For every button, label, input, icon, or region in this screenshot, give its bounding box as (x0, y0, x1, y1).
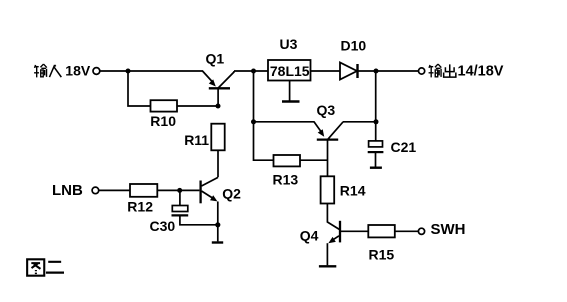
resistor R13 (274, 155, 301, 166)
svg-text:Q3: Q3 (317, 102, 336, 118)
ground U3 (289, 81, 291, 101)
node LNB terminal (92, 187, 99, 194)
node SWH terminal (418, 228, 424, 234)
wire R10 to base node (177, 105, 218, 107)
junction output node (374, 69, 379, 74)
wire output node down to C21 (375, 71, 377, 141)
wire R15 to SWH (395, 230, 418, 232)
wire Q1 collector to U3 (234, 70, 268, 72)
svg-text:78L15: 78L15 (270, 63, 310, 79)
wire Q3 collector (343, 121, 376, 123)
junction Q3 collector node (374, 119, 379, 124)
node IN: input terminal 输入18V (93, 68, 100, 75)
svg-text:C21: C21 (391, 139, 417, 155)
wire R14 to Q4 (327, 204, 339, 230)
transistor Q3 (314, 122, 343, 177)
svg-text:LNB: LNB (52, 182, 83, 199)
svg-text:R12: R12 (127, 199, 153, 215)
transistor Q2 (201, 177, 218, 203)
junction Q2 emitter / C30 (215, 222, 220, 227)
svg-text:SWH: SWH (431, 221, 466, 238)
wire R11 to Q2 collector (217, 150, 219, 177)
resistor R14 (321, 176, 335, 203)
svg-text:R14: R14 (340, 183, 366, 199)
svg-text:Q2: Q2 (222, 185, 241, 201)
svg-text:R13: R13 (273, 171, 299, 187)
node OUT: output terminal 输出14/18V (419, 68, 425, 74)
transistor Q1 (203, 71, 235, 106)
ground Q4 (319, 265, 336, 267)
capacitor C30 (179, 190, 181, 205)
svg-text:R11: R11 (184, 132, 209, 148)
wire R12 to Q2 base (157, 189, 199, 191)
transistor Q4 (328, 221, 368, 243)
diode D10 (340, 63, 357, 80)
svg-text:14/18V: 14/18V (458, 64, 504, 80)
svg-text:D10: D10 (341, 38, 367, 54)
wire U3 to D10 (311, 70, 341, 72)
wire Q4 emitter to ground (326, 243, 328, 265)
junction collector node (251, 69, 256, 74)
svg-text:R15: R15 (369, 247, 395, 263)
junction R12/C30/Q2 (177, 188, 182, 193)
label 输入18V (34, 63, 91, 79)
label 输出14/18V (429, 64, 504, 80)
resistor R11 (211, 124, 224, 151)
capacitor C21 (369, 141, 383, 147)
wire input rail (101, 70, 204, 72)
resistor R10 (151, 100, 178, 111)
svg-text:Q1: Q1 (206, 50, 225, 66)
junction input/R10 (126, 69, 131, 74)
wire down to R10 (128, 71, 151, 106)
junction Q3 emitter node (251, 119, 256, 124)
ground C21 (370, 166, 382, 168)
label 图二 (27, 259, 64, 275)
wire Q2 emitter down (217, 202, 219, 242)
junction Q1 base / R10 / R11 (216, 104, 221, 109)
regulator U3 box (268, 60, 311, 81)
svg-text:18V: 18V (65, 63, 91, 79)
resistor R12 (130, 184, 157, 197)
wire LNB to R12 (99, 189, 130, 191)
ground Q2 (212, 241, 223, 243)
resistor R15 (368, 225, 395, 237)
wire left vertical from collector node (254, 71, 274, 160)
svg-text:U3: U3 (280, 36, 298, 52)
svg-text:R10: R10 (150, 113, 176, 129)
wire Q3 emitter (254, 121, 315, 123)
svg-text:C30: C30 (150, 218, 176, 234)
svg-text:Q4: Q4 (300, 227, 319, 243)
wire R13 to Q3 base (300, 159, 328, 161)
wire D10 to output (358, 70, 419, 72)
